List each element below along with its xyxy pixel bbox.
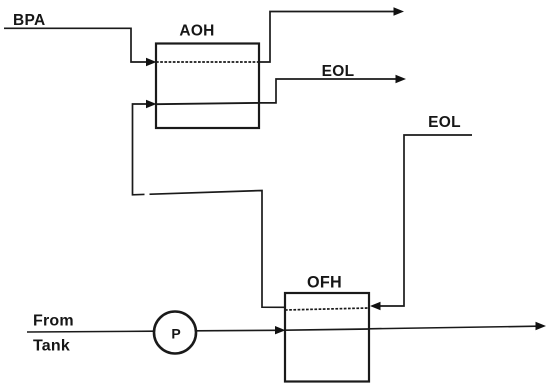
- svg-text:Tank: Tank: [33, 338, 70, 355]
- wire dashed internal line AOH: [156, 61, 259, 63]
- svg-text:P: P: [171, 326, 180, 342]
- wire AOH lower line through box: [156, 103, 259, 104]
- heater AOH: [156, 44, 259, 129]
- heater OFH: [285, 293, 369, 382]
- wire AOH top outlet: [259, 12, 395, 63]
- svg-text:EOL: EOL: [428, 114, 461, 131]
- wire EOL feed to OFH: [379, 135, 472, 306]
- svg-text:OFH: OFH: [307, 274, 342, 292]
- wire dashed internal line OFH: [285, 308, 369, 310]
- svg-text:BPA: BPA: [13, 12, 45, 29]
- wire gap artifact: [145, 193, 150, 196]
- wire tank feed to pump: [27, 330, 154, 333]
- wire OFH outlet: [369, 326, 537, 329]
- wire BPA feed to AOH: [4, 28, 148, 62]
- svg-text:AOH: AOH: [179, 22, 214, 39]
- wire AOH EOL outlet: [259, 79, 397, 103]
- pump P: [154, 312, 196, 354]
- svg-text:EOL: EOL: [322, 63, 355, 80]
- wire line through OFH: [285, 329, 369, 330]
- wire pump to OFH: [196, 329, 276, 332]
- svg-text:From: From: [33, 313, 74, 330]
- wire recycle OFH to AOH: [133, 104, 286, 307]
